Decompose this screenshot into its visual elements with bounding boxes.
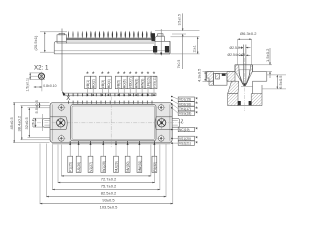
svg-text:93±0.5: 93±0.5 [102,197,115,202]
dim 32 [24,108,29,138]
svg-text:VD1(15): VD1(15) [179,98,191,102]
svg-text:NC(19): NC(19) [179,128,189,132]
plan top edge pin ticks [69,101,153,104]
svg-text:6.5±0.5: 6.5±0.5 [278,75,283,89]
svg-text:NV(30): NV(30) [126,162,130,172]
svg-text:4.3±0.5: 4.3±0.5 [196,68,201,82]
svg-text:VB(5): VB(5) [117,80,121,88]
right insert cutout [155,117,172,130]
svg-text:*: * [101,71,104,78]
svg-text:*: * [195,127,198,134]
dim phi2.5 [230,46,251,50]
plan top pins [69,94,153,97]
plan vertical centerline [110,97,112,149]
svg-text:HO(2): HO(2) [92,79,96,88]
corner hole top-right [157,104,165,112]
bottom pin dots and leaders [69,143,155,156]
svg-text:11±1: 11±1 [192,45,196,52]
bottom dim ext verticals [40,144,173,205]
detail dim 0.8 [34,80,57,92]
svg-text:HO(4): HO(4) [107,79,111,88]
dim 6.5 section [262,75,286,89]
dim 93 [47,197,167,203]
plan bottom edge pin ticks [70,141,154,144]
left insert [57,117,65,130]
corner hole top-left [57,104,65,112]
top label box 6 [121,71,127,96]
svg-text:*: * [117,71,120,78]
svg-text:32±0.5: 32±0.5 [24,117,29,130]
svg-text:*: * [195,140,198,147]
svg-text:*: * [86,71,89,78]
svg-text:HIN(8): HIN(8) [135,79,139,89]
svg-text:NW(31): NW(31) [138,161,142,172]
plan top pin strip [64,93,156,96]
plan horizontal centerline [37,122,184,124]
svg-text:0.8±0.10: 0.8±0.10 [43,84,56,88]
svg-text:3.5±0.5: 3.5±0.5 [178,14,182,25]
svg-text:5.5±0.5: 5.5±0.5 [34,99,39,113]
dim 4.3 section [196,68,207,82]
dim 75.7 [58,183,155,189]
svg-text:P1(25): P1(25) [69,162,73,172]
detail dim 1.5 [26,73,45,92]
dim 11 [171,37,200,54]
dim 103.5 [40,204,173,210]
dim 3.5 right of side view [155,13,200,34]
dim 5.5 [34,99,39,113]
bottom label boxes [68,156,157,172]
plan inner wall lines [51,105,53,141]
svg-text:*: * [153,71,156,78]
top label box 7 [127,71,133,96]
top label box 10 [145,71,151,96]
right insert [157,117,165,130]
section clip pocket [207,72,235,86]
squiggle symbol [182,119,183,124]
corner hole bottom-right [157,134,165,142]
svg-text:*: * [147,71,150,78]
svg-text:38.4±0.2: 38.4±0.2 [17,115,22,131]
dim 45 [9,103,14,143]
dim 72.7 [62,176,151,182]
top label box 5 [115,71,121,96]
section centerline [244,58,246,111]
svg-text:P2(32): P2(32) [153,162,157,172]
top label box 11 [151,71,157,96]
dim 82.5 [53,190,160,196]
svg-text:*: * [195,111,198,118]
plan lid [71,105,156,141]
section support column [228,81,239,94]
svg-text:VDD(7): VDD(7) [129,77,133,88]
left mounting tab [43,119,51,128]
side view body outline [54,42,170,54]
top label box 2 [90,71,96,96]
svg-text:75.7±0.2: 75.7±0.2 [101,183,117,188]
right mounting tab [172,119,180,128]
left tab edge extension line [42,114,44,131]
svg-text:W1(28): W1(28) [102,161,106,172]
svg-text:VS2(21): VS2(21) [179,142,191,146]
svg-text:VB(3): VB(3) [101,80,105,88]
right label box single [171,127,198,134]
dim 1.5 section [253,48,272,78]
svg-text:(20.5±1): (20.5±1) [33,35,38,51]
top label box 3 [99,71,105,96]
dim 26.4 ear [31,118,35,127]
dim 7 [171,34,200,69]
top label box 1 [85,71,91,96]
svg-text:45±0.5: 45±0.5 [9,117,14,130]
section bushing [228,81,262,105]
section slab outline [207,72,267,82]
plan baseplate bottom line [52,143,171,145]
svg-text:Ø6.3±0.2: Ø6.3±0.2 [240,31,257,36]
right label boxes group of 4 [171,96,198,118]
section funnel boss [235,65,253,87]
svg-text:TH1(17): TH1(17) [179,107,191,111]
svg-text:(26.4): (26.4) [31,119,35,128]
svg-text:HO(6): HO(6) [123,79,127,88]
svg-text:1.5(±0.1): 1.5(±0.1) [26,78,30,92]
side view pins [68,31,152,39]
svg-text:VD2(16): VD2(16) [179,102,191,106]
svg-text:82.5±0.2: 82.5±0.2 [101,190,117,195]
top label box 8 [133,71,139,96]
dim phi2.54 [228,53,251,57]
svg-text:*: * [135,71,138,78]
svg-text:X2: 1: X2: 1 [34,65,49,72]
svg-text:*: * [141,71,144,78]
left insert cutout [50,117,67,130]
section pin [243,45,246,87]
detail pin section [30,72,45,81]
svg-text:*: * [107,71,110,78]
svg-text:U1(26): U1(26) [77,162,81,172]
svg-text:VB(1): VB(1) [86,80,90,88]
svg-text:1.5±0.2: 1.5±0.2 [265,48,270,62]
svg-text:HIN(9): HIN(9) [141,79,145,89]
svg-text:V1(27): V1(27) [89,162,93,172]
ext lines left [13,103,50,143]
side view pin header strip [67,38,156,40]
corner hole bottom-left [57,134,65,142]
svg-text:LIN(10): LIN(10) [146,77,150,88]
svg-text:*: * [129,71,132,78]
side view connector block [57,33,67,43]
svg-text:72.7±0.2: 72.7±0.2 [101,177,117,182]
svg-text:VS1(20): VS1(20) [179,137,191,141]
svg-text:X: X [66,95,70,102]
svg-text:*: * [92,71,95,78]
dim phi6.3 [238,31,258,64]
svg-text:103.5±0.5: 103.5±0.5 [100,204,119,209]
side view right terminal block [152,29,171,56]
svg-text:NU(29): NU(29) [115,161,119,171]
right label boxes group of 2 [171,136,198,148]
svg-text:7±0.5: 7±0.5 [177,60,181,69]
plan body [50,103,172,143]
top label box 4 [105,71,111,96]
svg-text:VSS(18): VSS(18) [179,112,191,116]
svg-text:VSS(11): VSS(11) [152,76,156,88]
top label box 9 [139,71,145,96]
X pin marker leader [62,29,70,102]
dim 38.4 [17,106,22,140]
dim (20.5) left of side view [33,32,67,52]
svg-text:*: * [123,71,126,78]
